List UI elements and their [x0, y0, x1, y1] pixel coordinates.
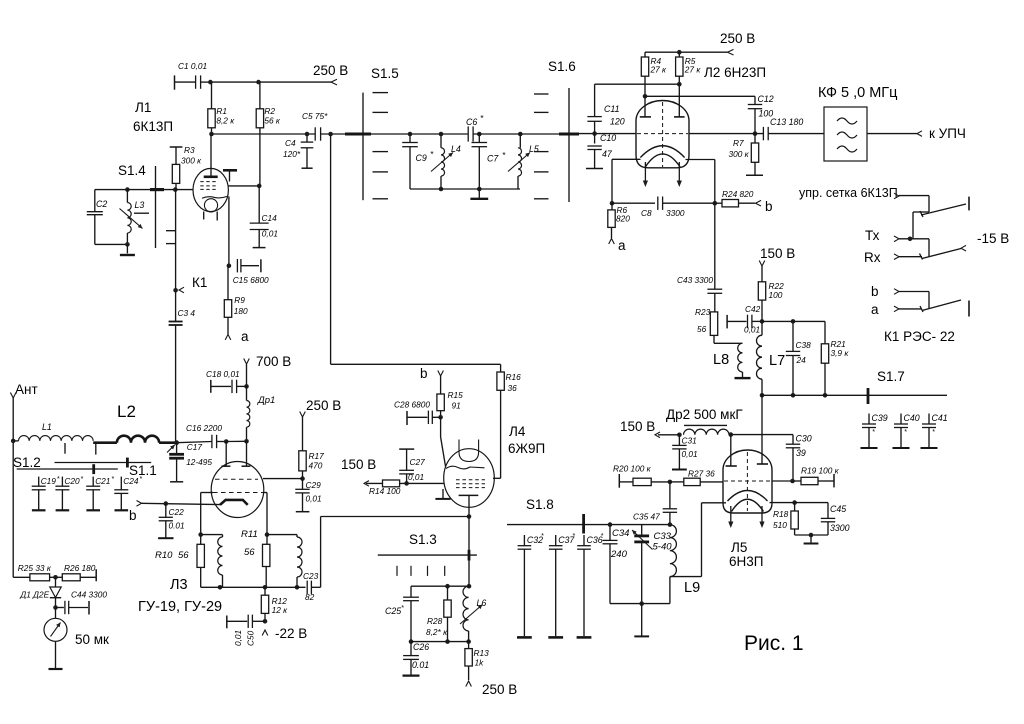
inductor coil1 Л3 [201, 535, 223, 590]
node K1 contact [173, 190, 207, 322]
svg-text:240: 240 [610, 549, 628, 560]
svg-text:упр. сетка 6К13П: упр. сетка 6К13П [799, 186, 898, 200]
wire anode rail L1 stage [209, 132, 315, 137]
terminal b after R24 [756, 199, 773, 214]
svg-text:56: 56 [244, 547, 255, 558]
supply -22 V below R12 [262, 626, 307, 641]
svg-text:100: 100 [769, 290, 783, 300]
resistor R17 470 [299, 451, 324, 481]
svg-text:82: 82 [305, 592, 315, 602]
svg-text:250 В: 250 В [482, 682, 517, 697]
svg-text:0,01: 0,01 [262, 229, 278, 239]
inductor L3 variable [120, 190, 145, 247]
capacitor C30 39 [786, 434, 812, 482]
svg-text:C8: C8 [641, 208, 652, 218]
supply 250 V below R13 [466, 681, 517, 697]
wire Л2 right cathode down [686, 160, 718, 289]
resistor R27 36 [670, 469, 723, 486]
capacitor C36* [577, 533, 604, 637]
capacitor C33 5-40 variable [632, 525, 672, 604]
label Л4 6Ж9П [508, 424, 545, 456]
inductor L9 [670, 525, 700, 596]
tube Л4 internal dashes [456, 480, 485, 488]
svg-text:К1: К1 [192, 275, 207, 290]
relay contact group 2 Tx/Rx [864, 228, 966, 265]
svg-text:120: 120 [610, 117, 625, 127]
capacitor C14 0,01 [250, 186, 278, 248]
svg-text:C10: C10 [600, 133, 616, 143]
resistor R16 36 [493, 364, 521, 478]
tube Л1 heater loop [204, 199, 218, 221]
svg-text:C22: C22 [169, 507, 185, 517]
capacitor C6* [466, 113, 484, 142]
svg-text:*: * [872, 429, 875, 436]
wire grid line L1 [95, 187, 193, 192]
wire R15 node into tube grid [441, 417, 446, 466]
capacitor C8 3300 [612, 197, 715, 219]
svg-text:C12: C12 [758, 94, 774, 104]
filter КФ 5,0 МГц box [818, 85, 897, 161]
label Л3 ГУ-19, ГУ-29 [138, 577, 222, 615]
svg-text:L3: L3 [135, 200, 145, 210]
svg-text:56: 56 [697, 324, 707, 334]
svg-text:Др2 500 мкГ: Др2 500 мкГ [666, 407, 743, 422]
svg-text:b: b [765, 199, 773, 214]
wire Dr2 node to C30 [731, 434, 793, 436]
svg-text:Д1 Д2Е: Д1 Д2Е [19, 590, 49, 600]
svg-text:*: * [80, 476, 83, 483]
capacitor C26 0.01 [403, 642, 430, 676]
svg-text:C28 6800: C28 6800 [394, 400, 430, 410]
capacitor C21* [86, 476, 114, 510]
svg-text:b: b [129, 508, 137, 523]
svg-text:R9: R9 [234, 295, 245, 305]
inductor L6 variable [460, 586, 486, 644]
capacitor C35 47 [633, 482, 677, 525]
svg-text:C15 6800: C15 6800 [233, 275, 269, 285]
svg-text:C35 47: C35 47 [633, 512, 660, 522]
tube Л3 internal dashes [213, 479, 264, 492]
supply 250 V arrow top-left [313, 63, 348, 85]
svg-text:-15 В: -15 В [977, 231, 1009, 246]
svg-text:L2: L2 [117, 402, 136, 421]
svg-text:S1.7: S1.7 [877, 369, 905, 384]
svg-text:Тх: Тх [865, 228, 880, 243]
svg-text:*: * [541, 533, 544, 540]
tube Л4 cathode bar and stem [459, 495, 479, 518]
tube Л1 top-cap grid bar [223, 170, 237, 181]
supply 250 V to R17 [300, 398, 342, 451]
tube Л5 left plate [726, 435, 737, 466]
svg-text:12-495: 12-495 [186, 457, 212, 467]
svg-text:0.01: 0.01 [412, 660, 429, 670]
relay contact group 3 b/a [871, 284, 969, 317]
svg-text:0,01: 0,01 [306, 494, 322, 504]
capacitor C20* [55, 476, 83, 510]
svg-text:R2: R2 [264, 106, 275, 116]
wire from C5 node down and across to R16 [331, 134, 501, 364]
wire anode node to C12 [643, 94, 755, 99]
wire tube output to R2/C14 node [228, 184, 261, 189]
capacitor C42 0,01 [727, 304, 762, 335]
resistor R10 56 [155, 535, 204, 588]
svg-text:56 к: 56 к [264, 116, 281, 126]
tube Л3 anode stems and bars [221, 441, 250, 466]
capacitor C5 75* [302, 111, 345, 141]
inductor L7 [757, 319, 786, 398]
resistor R21 3,9k [762, 321, 849, 397]
svg-text:Rx: Rx [864, 250, 881, 265]
capacitor C29 0,01 [295, 479, 321, 512]
svg-text:150 В: 150 В [620, 419, 655, 434]
svg-text:C9: C9 [416, 153, 427, 163]
svg-text:C16 2200: C16 2200 [186, 423, 222, 433]
svg-text:К1 РЭС- 22: К1 РЭС- 22 [884, 329, 955, 344]
svg-text:C14: C14 [262, 213, 278, 223]
svg-text:47: 47 [602, 149, 613, 159]
inductor L1 [13, 422, 93, 441]
supply 150 V to R14 [341, 457, 383, 486]
svg-text:R24 820: R24 820 [722, 189, 754, 199]
svg-text:50 мк: 50 мк [75, 632, 109, 647]
svg-text:C18 0,01: C18 0,01 [206, 369, 240, 379]
capacitor C10 47 [586, 133, 616, 169]
capacitor C19* [32, 476, 60, 510]
svg-text:*: * [601, 533, 604, 540]
svg-text:C29: C29 [306, 480, 322, 490]
svg-text:R1: R1 [216, 106, 227, 116]
svg-text:R14 100: R14 100 [369, 486, 401, 496]
supply 250 V arrow Л2 [720, 31, 755, 55]
capacitor C12 100 [748, 94, 774, 136]
svg-text:L5: L5 [529, 144, 539, 154]
ground tank [470, 189, 488, 199]
svg-text:Ант: Ант [15, 382, 38, 397]
svg-text:S1.3: S1.3 [409, 532, 437, 547]
wire main line tank to S1.6 [473, 133, 559, 135]
wire S1.6 thick segment [559, 133, 579, 136]
meter 50 мк [44, 608, 109, 670]
svg-text:C19: C19 [41, 476, 57, 486]
svg-text:*: * [57, 476, 60, 483]
svg-text:Л2 6Н23П: Л2 6Н23П [704, 65, 766, 80]
svg-text:0,01: 0,01 [744, 325, 760, 335]
relay contact group 1 (upr setka) [894, 193, 969, 239]
capacitor C7* [472, 132, 507, 192]
svg-text:ГУ-19, ГУ-29: ГУ-19, ГУ-29 [138, 599, 222, 615]
wire L9 bottom to rail [669, 577, 671, 604]
svg-text:R23: R23 [695, 307, 711, 317]
capacitor C39 [861, 413, 888, 448]
svg-text:0,01: 0,01 [408, 472, 424, 482]
resistor R23 56 [695, 307, 718, 343]
capacitor C45 3300 [795, 503, 850, 535]
wire Л2 left grid down to R6/C8 [610, 159, 641, 205]
svg-text:R13: R13 [474, 648, 490, 658]
wire +250V rail top-left [208, 80, 331, 85]
inductor L5 variable [508, 132, 539, 189]
svg-text:700 В: 700 В [256, 354, 291, 369]
wire Л4 cathode down through S1.3 [468, 517, 470, 587]
svg-text:300 к: 300 к [729, 149, 750, 159]
svg-text:3300: 3300 [666, 208, 685, 218]
resistor R24 820 [715, 189, 755, 207]
svg-text:L1: L1 [42, 422, 52, 432]
wire S1.6 to tube Л2 [579, 131, 636, 136]
wire C16 node to Dr1 node [226, 440, 246, 442]
tube Л4 grid wave [446, 466, 485, 469]
svg-text:6Ж9П: 6Ж9П [508, 441, 545, 456]
svg-text:300 к: 300 к [181, 156, 202, 166]
resistor R14 100 [369, 480, 444, 496]
wire L6 network bottom rail [411, 641, 469, 643]
capacitor C1 0,01 [175, 61, 211, 90]
resistor R1 8,2k [208, 82, 235, 134]
tube Л5 right plate [757, 395, 768, 464]
svg-text:C50: C50 [246, 630, 256, 646]
svg-text:b: b [420, 366, 428, 381]
tube U4 (Л4 6Ж9П) envelope [444, 449, 495, 508]
ground below L8 [735, 372, 751, 378]
svg-text:6К13П: 6К13П [133, 119, 173, 134]
svg-text:*: * [139, 476, 142, 483]
svg-text:Л5: Л5 [731, 540, 747, 555]
capacitor C23 82 [303, 571, 321, 602]
svg-text:C44 3300: C44 3300 [71, 590, 107, 600]
svg-text:C33: C33 [654, 531, 672, 542]
resistor R12 12k [261, 587, 288, 623]
svg-text:S1.4: S1.4 [118, 163, 146, 178]
switch S1.1 line [55, 458, 157, 478]
tube Л5 cathode arcs [728, 491, 768, 512]
resistor R6 820 [608, 203, 630, 238]
capacitor C37* [548, 533, 575, 637]
ground below R18/C45 [795, 533, 828, 544]
svg-text:R20 100 к: R20 100 к [613, 464, 652, 474]
capacitor C40 [893, 413, 920, 448]
tube Л5 internal dashes [724, 452, 771, 511]
terminal b above R15 [420, 366, 443, 394]
wire Л3 screen to R17 [263, 478, 303, 480]
tube Л2 right plate [674, 116, 685, 118]
svg-text:C2: C2 [96, 199, 107, 209]
svg-text:C30: C30 [796, 434, 812, 444]
svg-text:R26 180: R26 180 [64, 563, 96, 573]
svg-text:C7: C7 [487, 154, 499, 164]
capacitor C18 0,01 [206, 369, 247, 393]
tube Л2 left plate [640, 96, 651, 117]
capacitor C24* [114, 476, 142, 510]
tube U2 (Л2 6Н23П) envelope [636, 100, 689, 167]
capacitor C16 2200 [177, 423, 229, 448]
svg-text:R28: R28 [427, 616, 443, 626]
svg-text:C34: C34 [612, 528, 629, 539]
svg-text:3300: 3300 [830, 523, 850, 533]
svg-text:Рис. 1: Рис. 1 [744, 632, 804, 655]
svg-text:a: a [618, 238, 626, 253]
resistor R11 56 [241, 529, 270, 590]
terminal a below R6 [609, 238, 626, 253]
svg-text:-22 В: -22 В [275, 626, 307, 641]
supply 700 V [244, 354, 292, 389]
svg-text:C40: C40 [904, 413, 920, 423]
svg-text:R3: R3 [184, 145, 195, 155]
switch S1.6 wafer [534, 59, 576, 202]
svg-text:510: 510 [773, 520, 787, 530]
svg-text:56: 56 [178, 550, 189, 561]
capacitor C11 120 [587, 104, 624, 134]
svg-text:250 В: 250 В [313, 63, 348, 78]
capacitor C25* [385, 586, 419, 644]
capacitor C15 6800 [227, 259, 269, 285]
svg-text:R19 100 к: R19 100 к [801, 466, 840, 476]
svg-text:91: 91 [452, 401, 461, 411]
switch S1.7 wafer tick [868, 369, 905, 404]
svg-text:36: 36 [508, 383, 518, 393]
resistor R26 180 [62, 563, 96, 581]
inductor coil2 Л3 [267, 535, 302, 590]
wire Л3 cathode network bottom rail [201, 586, 306, 588]
wire tank bottom rail [410, 188, 520, 190]
svg-text:S1.6: S1.6 [548, 59, 576, 74]
switch S1.5 wafer [363, 66, 399, 200]
svg-text:C1 0,01: C1 0,01 [178, 61, 207, 71]
svg-text:1k: 1k [475, 658, 485, 668]
svg-text:39: 39 [796, 448, 806, 458]
capacitor C44 3300 [56, 590, 108, 615]
switch S1.4 wafer [118, 163, 175, 248]
tube Л2 internal dashes [637, 102, 688, 167]
svg-text:R7: R7 [733, 138, 744, 148]
svg-text:b: b [871, 284, 879, 299]
svg-text:C11: C11 [604, 104, 620, 114]
svg-text:C31: C31 [682, 436, 697, 446]
svg-text:C21: C21 [95, 476, 110, 486]
capacitor C27 0,01 [399, 449, 425, 483]
svg-text:470: 470 [309, 461, 323, 471]
svg-text:R25 33 к: R25 33 к [18, 563, 52, 573]
supply 150 V to Dr2 [620, 419, 682, 438]
inductor L2 (bold) [93, 402, 179, 445]
svg-text:L9: L9 [684, 580, 700, 596]
wire S1.7 rail [762, 394, 947, 396]
svg-text:a: a [241, 329, 249, 344]
svg-text:C3 4: C3 4 [178, 308, 196, 318]
choke Др2 500 мкГ [666, 407, 743, 437]
svg-text:Л3: Л3 [170, 577, 188, 593]
svg-text:R17: R17 [309, 451, 325, 461]
svg-text:*: * [904, 429, 907, 436]
capacitor C17 12-495 variable [167, 442, 212, 482]
resistor R3 300k [170, 145, 202, 190]
svg-text:C39: C39 [872, 413, 888, 423]
label Л1 6К13П [133, 100, 173, 134]
wire bottom rail C34/C33/L9 [610, 601, 670, 606]
svg-text:150 В: 150 В [760, 246, 795, 261]
svg-text:5-40: 5-40 [653, 542, 673, 553]
resistor R25 33k [13, 563, 62, 581]
resistor R13 1k [465, 642, 489, 680]
svg-text:S1.8: S1.8 [526, 497, 554, 512]
wire Л2 anode to C13 [689, 133, 763, 135]
svg-text:R27 36: R27 36 [688, 469, 715, 479]
svg-text:8,2* к: 8,2* к [426, 627, 448, 637]
capacitor C34 240 [603, 525, 630, 604]
resistor R20 100k [613, 464, 672, 488]
tube Л4 screen cup [459, 440, 479, 462]
svg-text:24: 24 [796, 355, 807, 365]
svg-text:a: a [871, 302, 879, 317]
svg-text:C20: C20 [64, 476, 80, 486]
tube U3 (Л3 ГУ-19) envelope [211, 462, 264, 518]
diode Д1 Д2Е [19, 577, 61, 610]
resistor R19 100k [772, 466, 840, 488]
choke Др1 [244, 386, 275, 443]
svg-text:*: * [572, 533, 575, 540]
resistor R28 8,2k [426, 586, 451, 644]
svg-text:C45: C45 [830, 504, 846, 514]
svg-text:L6: L6 [477, 598, 487, 608]
svg-text:27 к: 27 к [684, 65, 702, 75]
tube Л2 cathode arcs [640, 146, 684, 167]
svg-text:C17: C17 [187, 442, 203, 452]
svg-text:6Н3П: 6Н3П [729, 554, 763, 569]
tube Л5 cathode arrows [728, 506, 764, 528]
svg-text:L4: L4 [451, 144, 461, 154]
capacitor C22 0.01 [158, 504, 185, 539]
svg-text:180: 180 [234, 306, 248, 316]
wire L9 tap to tube Л5 [670, 503, 726, 577]
switch S1.8 rail [507, 497, 672, 534]
svg-text:C24: C24 [123, 476, 139, 486]
svg-text:C13 180: C13 180 [770, 117, 803, 127]
svg-text:150 В: 150 В [341, 457, 376, 472]
wire R5 node to C11 [595, 84, 680, 116]
svg-text:0.01: 0.01 [169, 521, 185, 531]
svg-text:Л4: Л4 [509, 424, 526, 439]
capacitor C32* [517, 533, 544, 637]
svg-text:*: * [401, 605, 404, 612]
svg-text:Л1: Л1 [135, 100, 151, 115]
capacitor C50 0,01 [227, 615, 265, 646]
resistor R22 100 [758, 281, 784, 321]
svg-text:0,01: 0,01 [233, 630, 243, 646]
supply 150 V to R22 [759, 246, 795, 282]
svg-text:C38: C38 [796, 340, 812, 350]
wire cathode rail to left (to C23) [321, 517, 469, 588]
svg-text:КФ 5 ,0 МГц: КФ 5 ,0 МГц [818, 85, 897, 101]
capacitor C13 180 [763, 117, 803, 140]
svg-text:C6: C6 [466, 117, 477, 127]
tube Л2 cathode arrows [643, 162, 682, 187]
capacitor C41 [921, 413, 948, 448]
svg-text:820: 820 [616, 214, 630, 224]
ground below L3 [120, 244, 135, 255]
svg-text:R15: R15 [448, 390, 464, 400]
capacitor C9* [402, 132, 434, 189]
inductor L4 variable [431, 132, 461, 192]
wire filter output к УПЧ [867, 126, 966, 141]
tube Л1 anode bar and stem [204, 134, 218, 177]
svg-text:Др1: Др1 [257, 395, 275, 406]
wire +250V rail Л2 [645, 50, 728, 55]
svg-text:R18: R18 [773, 509, 789, 519]
svg-text:0,01: 0,01 [682, 449, 698, 459]
switch S1.3 wafer [378, 532, 477, 576]
svg-text:3,9 к: 3,9 к [831, 348, 850, 358]
resistor R9 180 [224, 266, 248, 335]
antenna terminal Ант [10, 382, 37, 577]
